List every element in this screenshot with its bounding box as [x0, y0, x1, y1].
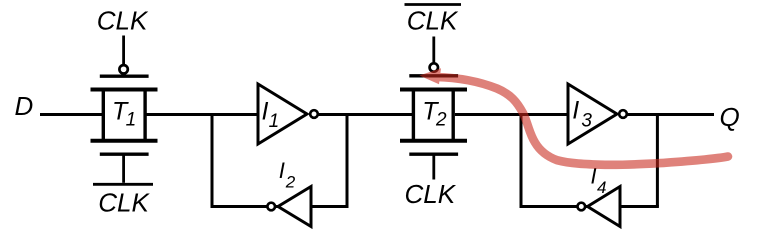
wire: feedback bottom of latch 1: [211, 205, 349, 208]
svg-text:2: 2: [285, 173, 296, 192]
wire: D input to T1: [40, 113, 124, 116]
annotation: red marker stroke pointing at T2 clock gate: [419, 68, 728, 165]
inverter I2 (feedback): [267, 158, 311, 226]
svg-text:CLK: CLK: [407, 6, 459, 36]
svg-text:Q: Q: [720, 102, 740, 132]
label CLK-bar at T2 top gate: [405, 5, 462, 36]
label CLK-bar at T1 bottom gate: [93, 184, 153, 217]
wire: I1 output to T2 input (node B): [316, 113, 433, 116]
transmission gate T2: [400, 37, 467, 180]
svg-text:I: I: [572, 97, 579, 125]
inverter I4 (feedback): [578, 164, 621, 227]
svg-text:CLK: CLK: [97, 6, 149, 36]
svg-text:2: 2: [435, 110, 447, 131]
svg-text:I: I: [262, 98, 269, 126]
wire: I3 output to Q (node D2): [626, 113, 714, 116]
inverter I1: [258, 84, 318, 144]
svg-text:CLK: CLK: [405, 179, 457, 209]
wire: feedback left rail of latch 2: [520, 113, 523, 207]
svg-text:CLK: CLK: [98, 188, 150, 218]
svg-text:3: 3: [581, 111, 592, 132]
svg-text:1: 1: [126, 110, 137, 131]
wire: feedback right rail of latch 2: [656, 113, 659, 207]
svg-text:I: I: [279, 158, 285, 183]
svg-text:4: 4: [597, 178, 606, 197]
inverter I3: [568, 84, 627, 144]
svg-text:D: D: [15, 91, 34, 121]
transmission gate T1: [91, 36, 158, 183]
wire: T2 output to I3 input (node C): [433, 113, 568, 116]
wire: T1 output to I1 input (node A): [124, 113, 260, 116]
svg-text:1: 1: [269, 111, 280, 132]
wire: feedback bottom of latch 2: [520, 205, 659, 208]
wire: feedback right rail of latch 1: [346, 113, 349, 207]
wire: feedback left rail of latch 1: [211, 113, 214, 207]
